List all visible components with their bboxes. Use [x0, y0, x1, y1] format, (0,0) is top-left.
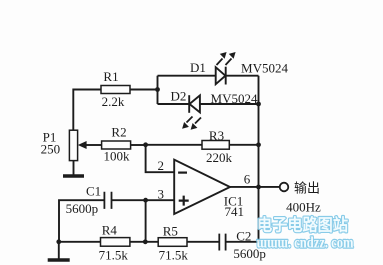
- wire R2 right to node B: [131, 144, 146, 146]
- svg-text:输出: 输出: [294, 181, 320, 196]
- svg-text:741: 741: [225, 204, 245, 219]
- svg-text:R2: R2: [111, 125, 126, 140]
- svg-text:D2: D2: [171, 89, 187, 104]
- wire bottom-left node to ground: [58, 242, 60, 259]
- resistor R2: [102, 141, 131, 149]
- node pin3 / C1 net: [143, 198, 148, 203]
- svg-text:3: 3: [157, 187, 164, 202]
- svg-text:ɯɯɯ. cndzz. com: ɯɯɯ. cndzz. com: [257, 235, 355, 252]
- wire R1 right to diode branch: [130, 89, 158, 91]
- wire D2 row: [158, 103, 259, 105]
- wire bottom node to R4: [59, 241, 101, 243]
- svg-text:400Hz: 400Hz: [286, 200, 321, 215]
- node B (inverting input net): [143, 142, 148, 147]
- wire D1 row: [158, 75, 259, 77]
- svg-text:71.5k: 71.5k: [99, 248, 129, 263]
- node junction R1/diodes: [155, 87, 160, 92]
- wire R4 right to node D: [130, 241, 158, 243]
- wire node B down to pin 2: [146, 145, 175, 172]
- wire main right vertical (feedback/output bus): [258, 76, 260, 242]
- node D2 row / bus: [256, 102, 261, 107]
- svg-text:C1: C1: [86, 184, 101, 199]
- svg-text:MV5024: MV5024: [211, 91, 258, 106]
- svg-text:D1: D1: [190, 60, 206, 75]
- watermark www.cndzz.com: [257, 235, 355, 252]
- svg-text:5600p: 5600p: [66, 201, 99, 216]
- svg-text:6: 6: [244, 172, 251, 187]
- svg-text:71.5k: 71.5k: [159, 248, 189, 263]
- ground under P1: [63, 174, 84, 178]
- svg-text:C2: C2: [236, 229, 251, 244]
- svg-text:220k: 220k: [206, 150, 233, 165]
- wire P1 bottom to ground: [73, 161, 75, 175]
- svg-text:R5: R5: [163, 224, 178, 239]
- watermark 电子电路图站: [257, 215, 348, 235]
- wire R3 right to bus: [229, 144, 258, 146]
- svg-text:R1: R1: [103, 69, 118, 84]
- capacitor C1: [104, 192, 111, 209]
- node R3 / bus: [256, 142, 261, 147]
- svg-text:R4: R4: [102, 223, 118, 238]
- svg-text:电子电路图站: 电子电路图站: [257, 215, 348, 235]
- svg-text:2: 2: [157, 158, 164, 173]
- wire R5 right to C2: [187, 241, 219, 243]
- wire node pin3 down to node D: [145, 200, 147, 242]
- LED D2: [182, 95, 201, 130]
- op-amp IC1: [174, 160, 230, 214]
- svg-text:R3: R3: [209, 128, 224, 143]
- wire op-amp output to terminal: [230, 186, 280, 188]
- svg-text:MV5024: MV5024: [241, 61, 288, 76]
- resistor R1: [101, 86, 130, 94]
- wire node B to R3 left: [146, 144, 202, 146]
- wire diode branch left vertical: [157, 76, 159, 104]
- potentiometer P1: [69, 130, 86, 160]
- resistor R4: [101, 238, 130, 247]
- wire C1 left to corner down: [59, 200, 104, 242]
- wire R1 left lead down to P1 top: [73, 90, 101, 131]
- node D (R4/R5/pin3): [143, 239, 148, 244]
- svg-text:250: 250: [41, 142, 61, 157]
- node output / bus: [256, 185, 261, 190]
- resistor R5: [158, 238, 187, 247]
- node bottom-left: [56, 239, 61, 244]
- resistor R3: [202, 141, 229, 150]
- wire wiper to R2: [86, 144, 101, 146]
- ground bottom-left: [48, 258, 70, 262]
- capacitor C2: [219, 234, 225, 251]
- svg-text:2.2k: 2.2k: [102, 94, 125, 109]
- wire pin 3 row: [112, 199, 174, 201]
- wire C2 right up to bus: [226, 241, 259, 243]
- LED D1: [216, 52, 236, 85]
- output terminal circle: [280, 183, 289, 192]
- svg-text:100k: 100k: [104, 149, 131, 164]
